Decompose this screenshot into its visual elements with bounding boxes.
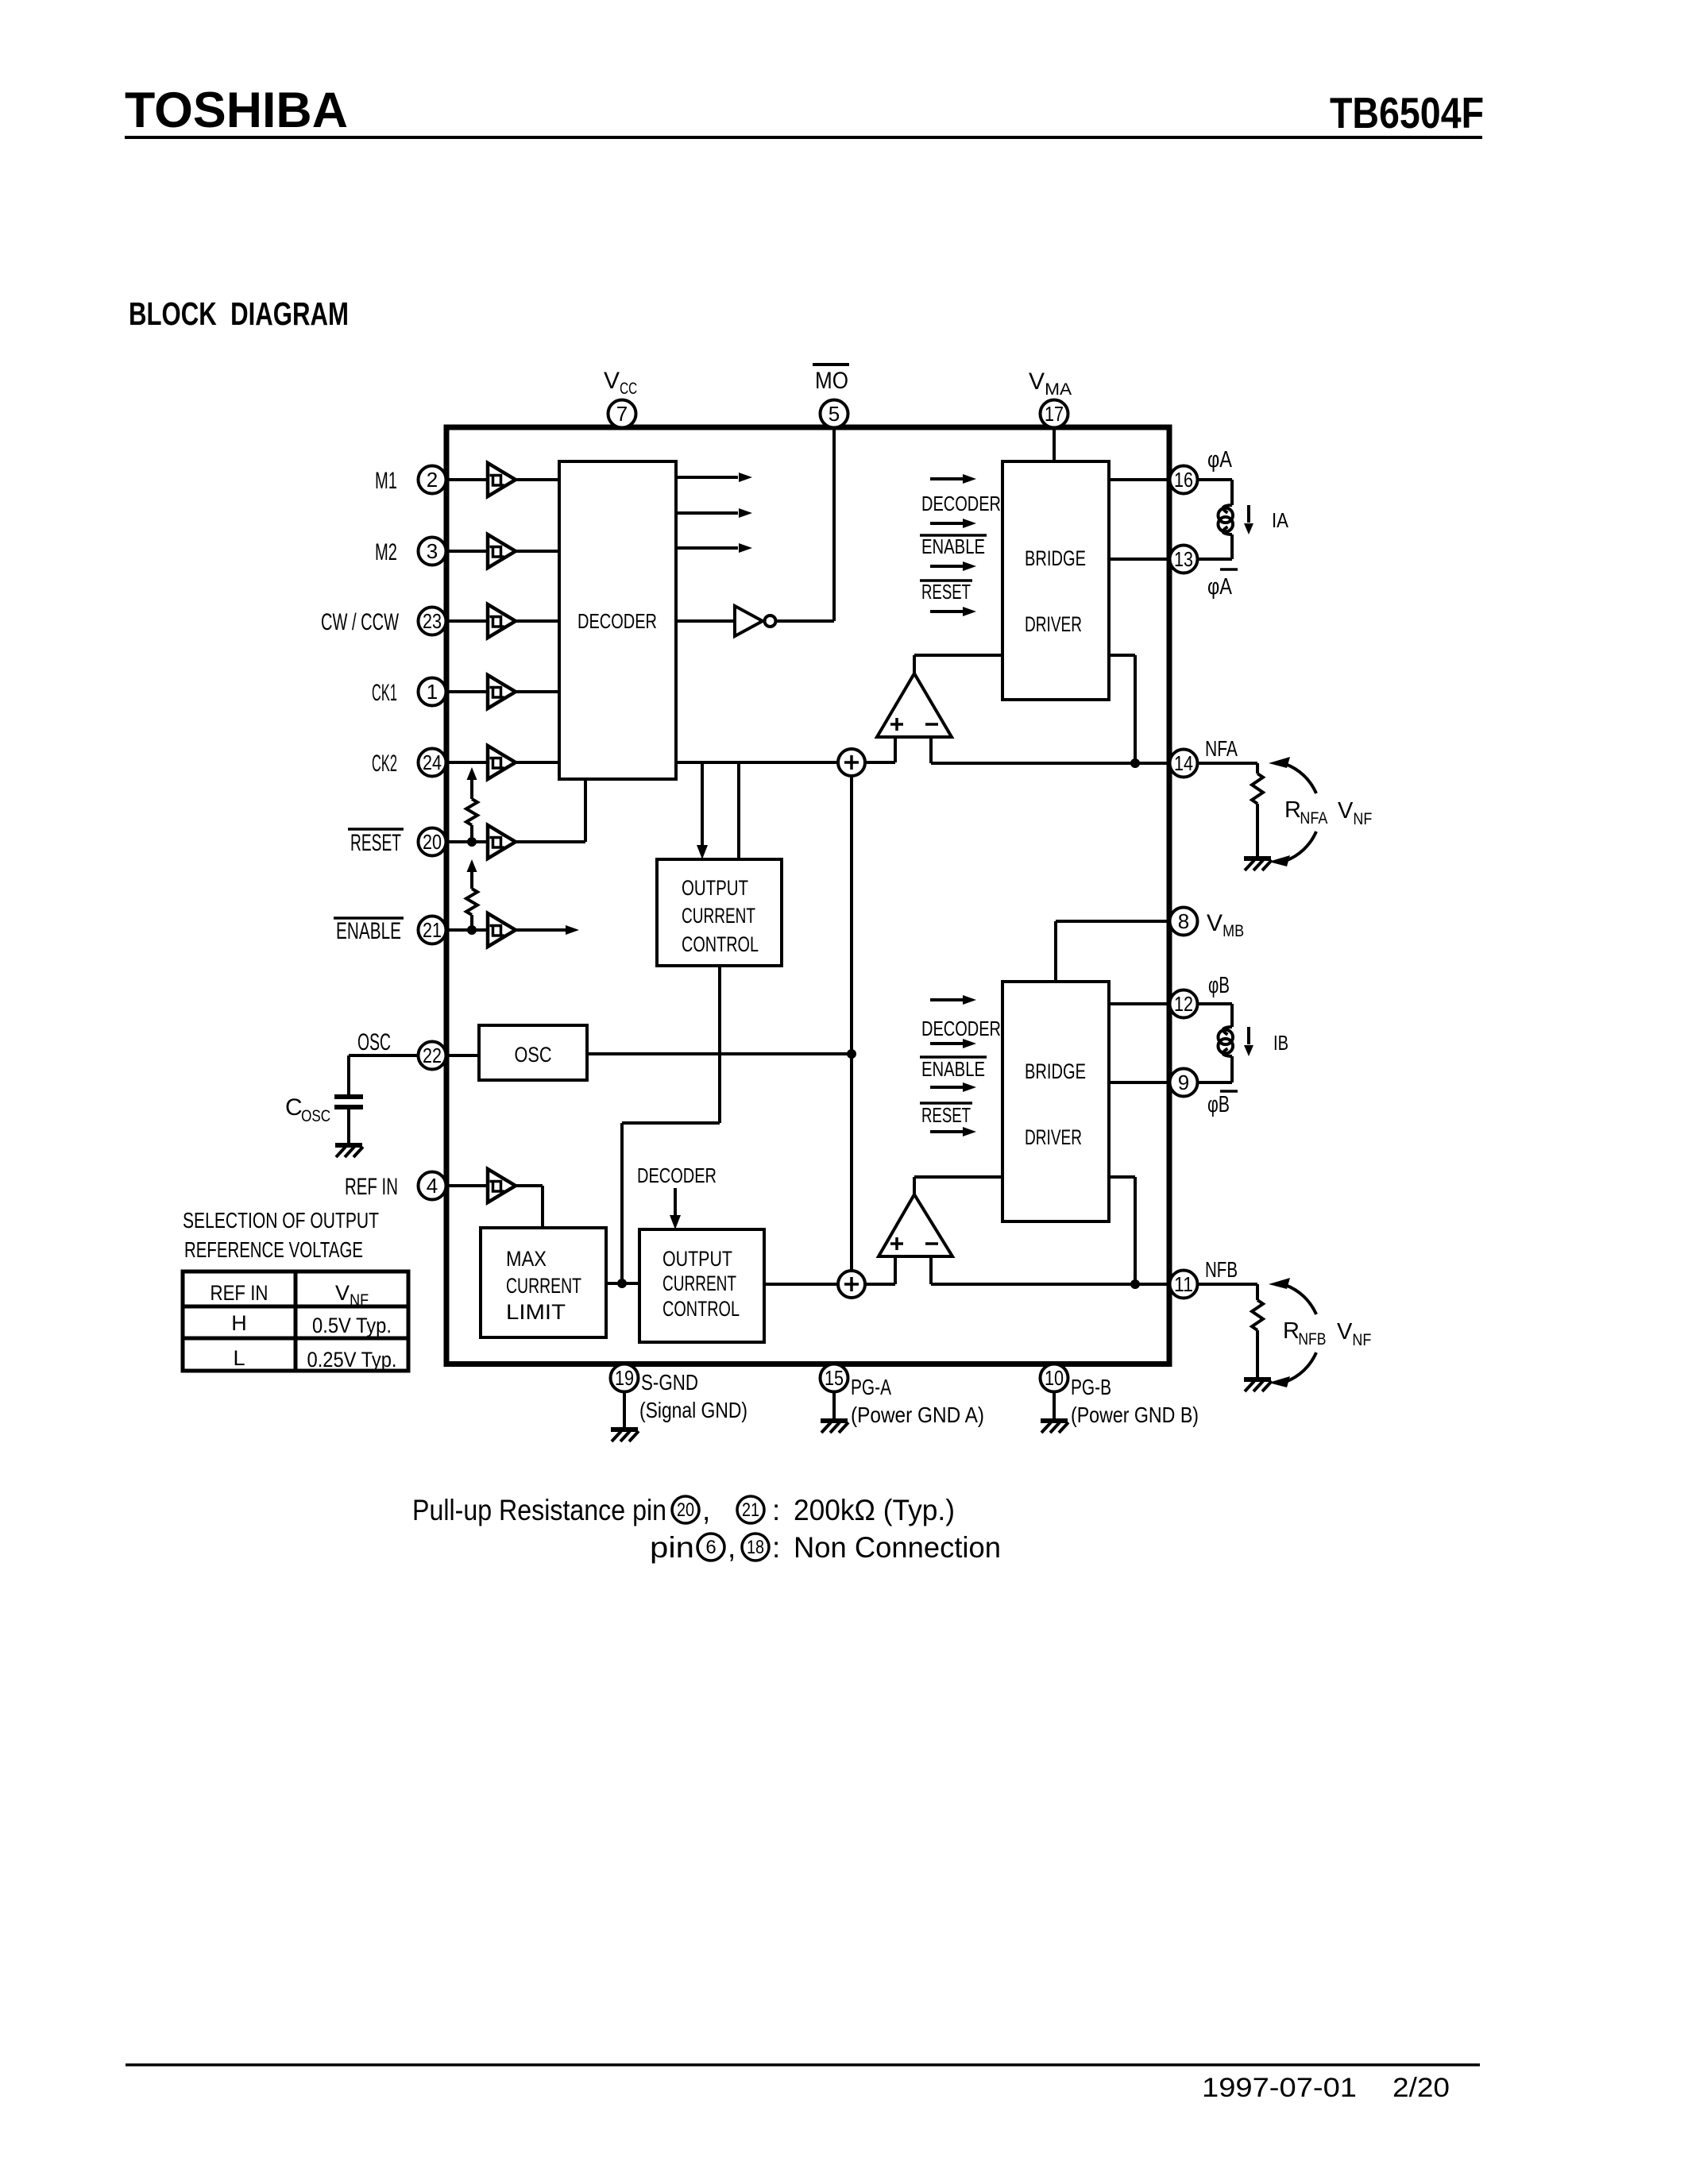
svg-text:MAX: MAX <box>506 1247 547 1271</box>
svg-text:,: , <box>702 1494 710 1526</box>
svg-text:CK1: CK1 <box>372 680 397 706</box>
svg-text:RESET: RESET <box>350 830 401 856</box>
svg-text:NF: NF <box>1352 1331 1371 1349</box>
svg-text:φB: φB <box>1208 973 1230 998</box>
svg-text:NFA: NFA <box>1300 809 1327 828</box>
svg-text:ENABLE: ENABLE <box>336 918 401 944</box>
svg-text:3: 3 <box>427 539 438 563</box>
svg-text:CURRENT: CURRENT <box>682 904 755 928</box>
svg-text:20: 20 <box>677 1499 694 1521</box>
svg-text:ENABLE: ENABLE <box>921 534 985 558</box>
svg-text:φB: φB <box>1207 1092 1230 1117</box>
svg-text:BRIDGE: BRIDGE <box>1025 546 1086 570</box>
svg-text:OSC: OSC <box>357 1029 391 1055</box>
svg-text:NF: NF <box>350 1291 369 1310</box>
svg-text:(Power GND A): (Power GND A) <box>851 1403 984 1427</box>
svg-text:14: 14 <box>1174 751 1193 775</box>
svg-text:20: 20 <box>423 830 442 854</box>
svg-text:DECODER: DECODER <box>921 1017 1001 1040</box>
svg-text:φA: φA <box>1207 447 1233 473</box>
svg-text:RESET: RESET <box>921 1103 971 1127</box>
svg-text:REF IN: REF IN <box>211 1281 268 1305</box>
svg-text:DECODER: DECODER <box>637 1163 717 1187</box>
svg-text:0.25V Typ.: 0.25V Typ. <box>307 1348 397 1372</box>
svg-text:M1: M1 <box>375 468 397 494</box>
svg-text:CC: CC <box>620 380 637 398</box>
svg-text:200kΩ (Typ.): 200kΩ (Typ.) <box>794 1494 955 1526</box>
svg-text:NFA: NFA <box>1205 736 1238 761</box>
svg-text:15: 15 <box>825 1366 844 1390</box>
svg-text:11: 11 <box>1174 1272 1193 1296</box>
svg-text:IA: IA <box>1272 508 1289 532</box>
svg-text:,: , <box>728 1531 736 1564</box>
svg-text:OSC: OSC <box>301 1107 330 1125</box>
svg-text:OSC: OSC <box>515 1043 552 1067</box>
svg-text:REFERENCE VOLTAGE: REFERENCE VOLTAGE <box>184 1237 363 1262</box>
svg-text:CURRENT: CURRENT <box>662 1271 736 1295</box>
svg-text:2: 2 <box>427 468 438 492</box>
svg-text:4: 4 <box>427 1174 438 1198</box>
svg-text:23: 23 <box>423 609 442 633</box>
svg-text:NFB: NFB <box>1205 1257 1238 1282</box>
svg-text:ENABLE: ENABLE <box>921 1057 985 1081</box>
svg-text:(Signal GND): (Signal GND) <box>639 1398 747 1422</box>
svg-text:SELECTION OF OUTPUT: SELECTION OF OUTPUT <box>183 1208 379 1233</box>
svg-text:CW / CCW: CW / CCW <box>321 609 399 635</box>
svg-text:CURRENT: CURRENT <box>506 1274 581 1298</box>
svg-text:Pull-up Resistance pin: Pull-up Resistance pin <box>412 1494 666 1526</box>
svg-text:V: V <box>1207 910 1223 936</box>
svg-text:18: 18 <box>747 1537 764 1558</box>
svg-text:BRIDGE: BRIDGE <box>1025 1059 1086 1083</box>
svg-text:φA: φA <box>1207 574 1233 600</box>
svg-text:RESET: RESET <box>921 580 971 604</box>
svg-text:C: C <box>285 1094 303 1121</box>
svg-text:16: 16 <box>1174 468 1193 492</box>
svg-text:22: 22 <box>423 1044 442 1067</box>
svg-text:17: 17 <box>1045 402 1064 426</box>
svg-text:NFB: NFB <box>1298 1330 1326 1349</box>
svg-text:(Power GND B): (Power GND B) <box>1071 1403 1199 1427</box>
svg-text:CONTROL: CONTROL <box>682 932 759 956</box>
svg-text:TOSHIBA: TOSHIBA <box>125 83 348 138</box>
svg-text:19: 19 <box>615 1366 634 1390</box>
svg-text:2/20: 2/20 <box>1393 2073 1450 2103</box>
svg-text:MO: MO <box>815 368 848 394</box>
svg-text:7: 7 <box>616 402 628 426</box>
svg-text:PG-B: PG-B <box>1071 1375 1111 1399</box>
svg-text:R: R <box>1283 1318 1300 1344</box>
svg-text:TB6504F: TB6504F <box>1330 88 1484 137</box>
svg-text:L: L <box>233 1346 245 1370</box>
svg-text:NF: NF <box>1353 810 1372 828</box>
svg-text:S-GND: S-GND <box>641 1370 698 1395</box>
svg-text:1997-07-01: 1997-07-01 <box>1202 2073 1357 2103</box>
svg-text:CONTROL: CONTROL <box>662 1297 740 1321</box>
svg-text:IB: IB <box>1273 1031 1288 1055</box>
svg-text:OUTPUT: OUTPUT <box>682 876 748 900</box>
svg-text:9: 9 <box>1178 1071 1189 1094</box>
svg-text::: : <box>772 1531 780 1564</box>
svg-text:DRIVER: DRIVER <box>1025 1125 1082 1149</box>
svg-text:5: 5 <box>829 402 840 426</box>
svg-text:V: V <box>1029 369 1045 395</box>
svg-text:pin: pin <box>650 1531 694 1564</box>
svg-text:V: V <box>335 1281 350 1305</box>
svg-text:6: 6 <box>705 1537 716 1558</box>
svg-text:13: 13 <box>1174 547 1193 571</box>
svg-text:V: V <box>604 368 620 394</box>
svg-text:8: 8 <box>1178 909 1189 933</box>
svg-text:24: 24 <box>423 751 442 774</box>
svg-text:PG-A: PG-A <box>851 1375 891 1399</box>
svg-text:10: 10 <box>1045 1366 1064 1390</box>
svg-text:M2: M2 <box>375 539 397 565</box>
svg-text:DRIVER: DRIVER <box>1025 612 1082 636</box>
svg-text:0.5V Typ.: 0.5V Typ. <box>312 1314 392 1337</box>
svg-text:V: V <box>1338 798 1354 824</box>
svg-text:CK2: CK2 <box>372 751 397 777</box>
svg-text:REF IN: REF IN <box>345 1174 398 1200</box>
svg-text:R: R <box>1284 797 1301 823</box>
svg-text::: : <box>772 1494 780 1526</box>
svg-text:H: H <box>231 1311 247 1335</box>
svg-text:LIMIT: LIMIT <box>506 1300 566 1324</box>
svg-text:21: 21 <box>423 918 442 942</box>
svg-text:MA: MA <box>1045 380 1072 399</box>
svg-text:DECODER: DECODER <box>921 492 1001 515</box>
svg-text:OUTPUT: OUTPUT <box>662 1247 732 1271</box>
svg-text:BLOCK DIAGRAM: BLOCK DIAGRAM <box>129 295 349 332</box>
svg-text:Non Connection: Non Connection <box>794 1531 1001 1564</box>
svg-text:12: 12 <box>1174 992 1193 1016</box>
svg-text:1: 1 <box>427 680 438 704</box>
svg-text:21: 21 <box>742 1499 759 1521</box>
svg-text:V: V <box>1337 1319 1353 1345</box>
svg-text:DECODER: DECODER <box>577 609 657 633</box>
svg-text:MB: MB <box>1223 922 1244 940</box>
